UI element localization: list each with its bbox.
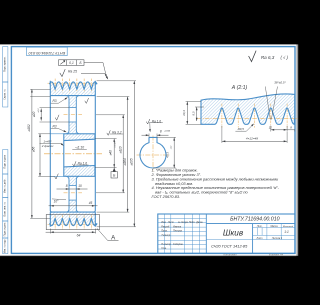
svg-text:Лит.: Лит. (256, 225, 263, 228)
svg-text:⌀110: ⌀110 (118, 146, 122, 153)
dim diameter 110 hole circle (122, 115, 124, 193)
svg-text:R3: R3 (52, 99, 56, 103)
svg-text:Разраб.: Разраб. (161, 225, 170, 228)
title block outer box (158, 214, 295, 253)
detail A callout leader (97, 228, 119, 240)
datum symbol B (113, 167, 115, 171)
lower web outline (66, 176, 69, 212)
svg-text:Лист: Лист (167, 221, 174, 224)
svg-text:Т.контр.: Т.контр. (161, 234, 171, 237)
detail A groove centerlines (221, 104, 223, 128)
svg-text:R0,5: R0,5 (238, 127, 245, 131)
svg-text:Копировал: Копировал (224, 253, 237, 257)
groove pitch dim 12 (270, 126, 272, 132)
groove centerlines top rim (54, 79, 56, 93)
corner roughness mark Ra 6,3 (249, 51, 257, 62)
tapered bore lower edge (64, 166, 95, 167)
bottom rim inner surface (50, 211, 95, 213)
svg-text:Ra 6,3: Ra 6,3 (261, 55, 275, 60)
dim diameter 205 outside (133, 81, 135, 227)
roughness Ra 3,2 right (107, 130, 111, 135)
svg-text:Н.контр.: Н.контр. (161, 243, 171, 246)
svg-text:10°: 10° (54, 200, 60, 204)
svg-text:Сидоров: Сидоров (173, 243, 183, 246)
svg-text:+0,036: +0,036 (164, 131, 171, 133)
rim right face (94, 81, 96, 212)
dim diameter 182 groove root (31, 89, 33, 218)
svg-text:Масса: Масса (270, 225, 278, 228)
svg-text:Ra 25: Ra 25 (68, 70, 77, 74)
svg-text:Инв. № подл.: Инв. № подл. (4, 238, 7, 253)
svg-text:Пров.: Пров. (161, 230, 168, 233)
dim diameter 56 hub (39, 134, 41, 177)
keyway roughness Ra 1,6 (146, 119, 150, 124)
dim diameter 164 rim inner (127, 97, 129, 213)
upper web outline (66, 96, 69, 134)
svg-text:1×45°: 1×45° (43, 140, 52, 144)
svg-text:R3: R3 (52, 125, 56, 129)
top rim section hatch (50, 82, 97, 96)
detail A depth dim 10,4 (186, 102, 188, 125)
roughness Ra 25 with leader (60, 69, 65, 76)
hub outline (64, 134, 95, 177)
svg-text:43,3: 43,3 (165, 152, 169, 158)
svg-text:4×12=48: 4×12=48 (246, 136, 258, 140)
svg-text:⌀164: ⌀164 (123, 158, 127, 165)
title block grid (158, 214, 295, 253)
dim diameter 40 bore with datum B (113, 139, 115, 168)
svg-text:Справ. №: Справ. № (4, 89, 7, 100)
sheet right edge shadow (297, 44, 299, 255)
hub OD edge visible in left recess (50, 133, 64, 135)
white drawing sheet (0, 44, 297, 255)
upper web section hatch (66, 96, 79, 108)
svg-text:64: 64 (77, 234, 81, 238)
runout frame leader (84, 63, 106, 77)
svg-text:⌀40: ⌀40 (109, 150, 113, 156)
svg-text:№ докум.: № докум. (178, 221, 189, 224)
svg-text:◅1:10: ◅1:10 (75, 145, 84, 149)
dim 45 rim width to web (49, 205, 98, 207)
svg-text:БНТУ.711694.00.010: БНТУ.711694.00.010 (28, 51, 65, 56)
bottom rim section hatch (50, 212, 97, 226)
bore roughness Ra 1,6 (73, 161, 77, 166)
svg-text:Подп.: Подп. (189, 221, 196, 224)
svg-text:Взам. инв. №: Взам. инв. № (4, 202, 7, 217)
roughness tick in left recess (55, 115, 59, 120)
svg-text:Подп. и дата: Подп. и дата (5, 154, 7, 168)
svg-text:1:1: 1:1 (284, 230, 289, 234)
svg-text:Б: Б (79, 61, 81, 65)
rim faces lower part (49, 212, 51, 227)
bottom rim outline with V-grooves (50, 218, 97, 225)
groove centerlines bottom rim (54, 215, 56, 229)
svg-text:А (2:1): А (2:1) (231, 85, 248, 91)
svg-text:Перв. примен.: Перв. примен. (5, 56, 7, 72)
svg-text:10,4: 10,4 (182, 110, 186, 116)
svg-text:СЧ20 ГОСТ 1412-85: СЧ20 ГОСТ 1412-85 (211, 243, 248, 248)
top rim inner surface (50, 95, 95, 97)
detail A pitch line (197, 117, 298, 119)
rim left face (50, 81, 52, 212)
top rim outline with V-grooves (50, 82, 97, 89)
svg-text:⌀20: ⌀20 (32, 112, 36, 118)
top-left designation stamp (27, 47, 68, 55)
keyway depth dim 43,3 (173, 137, 175, 168)
lower web section hatch (66, 176, 79, 185)
svg-text:+0,025: +0,025 (114, 141, 116, 148)
keyway width dim 8 (142, 134, 150, 136)
edge dim 8 (294, 130, 296, 132)
svg-text:Шкив: Шкив (223, 228, 244, 237)
left margin stamp boxes (3, 47, 8, 254)
detail A callout rectangle (46, 215, 99, 230)
groove angle dim 38 deg (265, 87, 277, 120)
bore circle with keyway (140, 137, 166, 168)
frame border (11, 47, 295, 254)
svg-text:Масштаб: Масштаб (283, 226, 294, 228)
upper lightening hole edges (69, 107, 76, 109)
svg-text:БНТУ.711694.00.010: БНТУ.711694.00.010 (230, 217, 280, 223)
hub upper wall hatch (64, 134, 95, 141)
svg-text:⌀182: ⌀182 (27, 124, 31, 131)
lightening hole centerline lower (64, 192, 83, 194)
svg-text:38°±0,5°: 38°±0,5° (274, 80, 286, 84)
svg-text:Формат А4: Формат А4 (269, 253, 284, 257)
svg-text:Инв. № дубл.: Инв. № дубл. (4, 178, 7, 193)
hub lower wall hatch (64, 166, 95, 177)
svg-text:45: 45 (89, 201, 93, 205)
dim 64 rim width (46, 231, 96, 233)
svg-text:⌀205: ⌀205 (130, 158, 134, 165)
hole dim 20 with tolerance (40, 109, 42, 121)
detail A outline (201, 94, 295, 124)
lower lightening hole edges (69, 185, 76, 187)
svg-text:0,1: 0,1 (69, 61, 74, 65)
keyway view centerlines (137, 154, 170, 156)
svg-text:( √ ): ( √ ) (280, 55, 288, 60)
lightening hole centerline upper (64, 114, 83, 116)
svg-text:8,5: 8,5 (191, 111, 195, 115)
detail A depth dim 8,5 (196, 107, 198, 121)
svg-text:Петров: Петров (173, 230, 183, 233)
svg-text:Лист: Лист (256, 238, 263, 240)
svg-text:Подп. и дата: Подп. и дата (5, 222, 7, 236)
svg-text:12: 12 (269, 126, 273, 130)
svg-text:Изм.: Изм. (161, 221, 166, 224)
detail A sectioned rim with grooves (201, 94, 295, 124)
web thickness dim 8 and 10 (57, 188, 88, 190)
axis centerline of pulley (44, 153, 102, 155)
runout tolerance frame (59, 60, 85, 66)
roughness tick in right recess (85, 98, 89, 103)
svg-text:10: 10 (78, 184, 82, 188)
groove pitch line bottom rim (48, 223, 99, 225)
groove pitch line top rim (48, 82, 99, 84)
grooves total dim 4x12=48 (221, 126, 223, 143)
svg-text:8: 8 (66, 184, 68, 188)
roughness tick lower left (55, 174, 59, 179)
svg-text:Листов 1: Листов 1 (271, 238, 283, 240)
svg-text:Дата: Дата (195, 221, 203, 224)
svg-text:Утв.: Утв. (161, 247, 167, 250)
svg-text:⌀56: ⌀56 (31, 147, 35, 153)
svg-text:2 фаски: 2 фаски (41, 144, 54, 148)
svg-text:Иванов: Иванов (173, 225, 182, 228)
svg-text:ГОСТ 25670-83.: ГОСТ 25670-83. (152, 194, 181, 199)
svg-text:8: 8 (160, 129, 162, 133)
tapered bore upper edge (64, 139, 95, 140)
